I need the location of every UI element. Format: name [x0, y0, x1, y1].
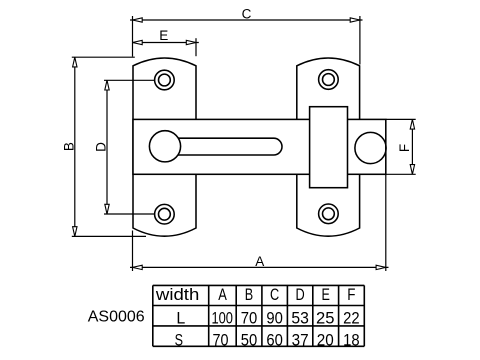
svg-text:60: 60 — [266, 331, 283, 350]
svg-text:53: 53 — [291, 309, 309, 328]
svg-text:90: 90 — [266, 309, 283, 328]
svg-text:F: F — [347, 285, 355, 304]
svg-text:18: 18 — [343, 331, 360, 350]
svg-text:B: B — [62, 142, 77, 151]
svg-text:E: E — [159, 28, 168, 43]
svg-text:AS0006: AS0006 — [88, 309, 145, 326]
svg-text:L: L — [176, 309, 185, 328]
svg-text:D: D — [296, 285, 305, 304]
svg-text:width: width — [155, 285, 199, 304]
svg-text:F: F — [397, 144, 412, 152]
svg-text:70: 70 — [241, 309, 258, 328]
svg-text:S: S — [175, 331, 183, 350]
svg-text:70: 70 — [213, 331, 229, 350]
svg-text:100: 100 — [211, 309, 233, 328]
svg-text:A: A — [255, 254, 264, 269]
svg-text:E: E — [322, 285, 330, 304]
svg-text:20: 20 — [317, 331, 334, 350]
svg-text:22: 22 — [343, 309, 360, 328]
svg-text:C: C — [242, 7, 252, 22]
svg-text:50: 50 — [241, 331, 258, 350]
svg-text:A: A — [218, 285, 227, 304]
svg-text:25: 25 — [316, 309, 335, 328]
svg-text:C: C — [270, 285, 279, 304]
svg-text:D: D — [93, 142, 108, 152]
svg-text:B: B — [245, 285, 253, 304]
svg-text:37: 37 — [292, 331, 309, 350]
